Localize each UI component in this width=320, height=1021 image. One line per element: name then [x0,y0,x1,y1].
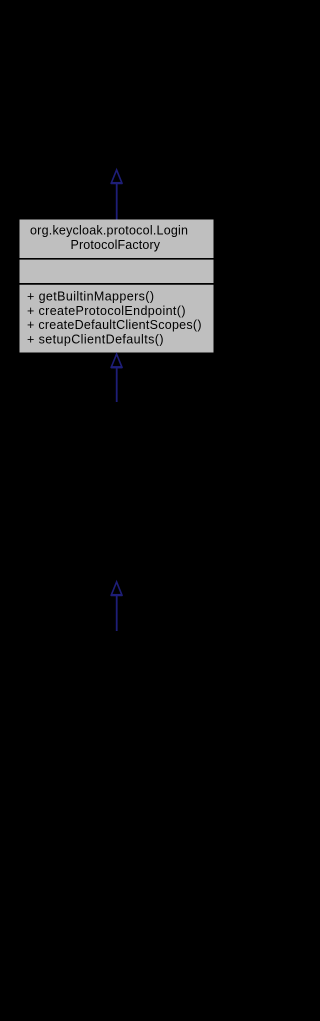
arrowhead base bar (bottom) [111,594,123,596]
inheritance arrowhead (middle, pointing up to this class) [111,354,122,367]
separator line 1 (below title compartment) [20,258,214,260]
svg-text:org.keycloak.protocol.Login: org.keycloak.protocol.Login [30,224,188,238]
wire (bottom edge shaft) [116,596,118,631]
wire (middle edge shaft) [116,368,118,402]
separator line 2 (below empty attributes compartment) [20,283,214,285]
wire (top edge shaft) [116,184,118,220]
svg-text:+ setupClientDefaults(): + setupClientDefaults() [27,333,164,347]
arrowhead base bar (middle) [111,366,123,368]
svg-text:+ createDefaultClientScopes(): + createDefaultClientScopes() [27,318,202,332]
svg-text:+ createProtocolEndpoint(): + createProtocolEndpoint() [27,304,186,318]
svg-text:ProtocolFactory: ProtocolFactory [71,238,161,252]
arrowhead base bar (top) [111,182,123,184]
class box org.keycloak.protocol.LoginProtocolFactory [20,220,214,353]
inheritance arrowhead (top, pointing up to base class) [111,170,122,183]
svg-text:+ getBuiltinMappers(): + getBuiltinMappers() [27,289,154,303]
inheritance arrowhead (bottom, pointing up) [111,582,122,595]
